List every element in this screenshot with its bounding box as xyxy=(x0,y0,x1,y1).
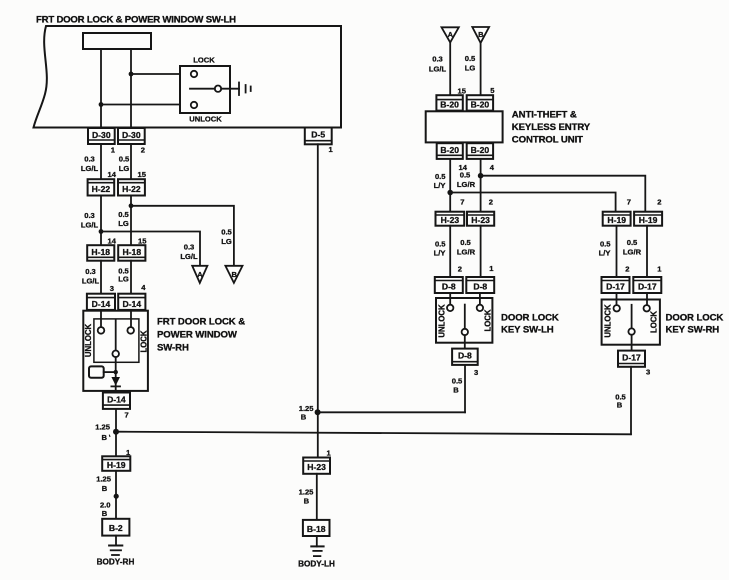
contact lock xyxy=(191,71,197,77)
ground terminal bars xyxy=(239,83,251,96)
switch DOOR LOCK KEY SW-RH box xyxy=(602,300,660,345)
svg-text:LG/L: LG/L xyxy=(81,221,99,230)
svg-text:D-8: D-8 xyxy=(458,351,472,361)
svg-text:KEYLESS ENTRY: KEYLESS ENTRY xyxy=(512,122,591,133)
wire to H-19 pin 7 xyxy=(450,193,615,212)
switch SW-LH key name label xyxy=(501,313,559,336)
svg-text:3: 3 xyxy=(474,368,478,377)
svg-text:B: B xyxy=(453,386,459,395)
connector H-18 pin 14 xyxy=(87,245,114,261)
svg-text:LG: LG xyxy=(465,64,476,73)
svg-text:0.5: 0.5 xyxy=(460,171,471,180)
node junction ground bus xyxy=(113,429,119,435)
svg-text:KEY SW-LH: KEY SW-LH xyxy=(501,325,554,336)
connector D-14 pin 4 xyxy=(118,294,145,310)
node junction LG/R xyxy=(478,173,484,179)
wire xyxy=(104,371,116,373)
connector B-20 pin 4 xyxy=(467,143,493,159)
wire xyxy=(130,310,132,327)
svg-text:LG/L: LG/L xyxy=(82,277,100,286)
node junction xyxy=(114,370,118,374)
motor bar inside SW-LH xyxy=(83,33,151,49)
connector D-30 pin 2 xyxy=(118,128,145,144)
wire to triangle A xyxy=(101,232,200,266)
label 0.5 L/Y xyxy=(599,240,612,258)
wire xyxy=(130,49,132,128)
svg-text:DOOR LOCK: DOOR LOCK xyxy=(666,313,724,324)
svg-text:UNLOCK: UNLOCK xyxy=(603,304,612,338)
svg-text:15: 15 xyxy=(138,237,147,246)
svg-text:D-17: D-17 xyxy=(638,281,657,291)
node junction to B xyxy=(129,203,134,208)
svg-text:D-5: D-5 xyxy=(311,130,325,140)
svg-text:D-8: D-8 xyxy=(442,281,456,291)
lock switch S1 box xyxy=(180,66,230,113)
wire xyxy=(100,49,102,128)
label 1.25 B xyxy=(299,404,315,422)
svg-text:UNLOCK: UNLOCK xyxy=(189,115,222,124)
wire xyxy=(115,471,117,519)
svg-text:LOCK: LOCK xyxy=(139,330,148,352)
svg-text:L/Y: L/Y xyxy=(434,181,446,190)
wire xyxy=(646,293,648,305)
svg-text:2: 2 xyxy=(657,198,661,207)
svg-text:0.3: 0.3 xyxy=(432,55,443,64)
svg-text:B: B xyxy=(231,270,237,279)
wire xyxy=(480,159,482,212)
svg-text:KEY SW-RH: KEY SW-RH xyxy=(666,325,720,336)
wire xyxy=(631,335,633,351)
wire xyxy=(449,293,451,305)
wire xyxy=(115,357,117,392)
svg-text:0.5: 0.5 xyxy=(435,240,446,249)
svg-text:L/Y: L/Y xyxy=(599,249,611,258)
wire xyxy=(316,536,318,546)
label 2.0 B xyxy=(100,501,111,519)
label 1.25 B xyxy=(96,475,112,494)
wire xyxy=(449,159,451,212)
wire xyxy=(130,144,132,179)
connector D-5 pin 1 xyxy=(305,128,332,145)
wire xyxy=(100,144,102,179)
connector D-8 pin 2 xyxy=(435,277,463,293)
connector D-8 pin 1 xyxy=(466,277,494,293)
label 0.5 L/Y xyxy=(434,240,447,258)
svg-text:LG/R: LG/R xyxy=(457,180,476,189)
svg-text:UNLOCK: UNLOCK xyxy=(437,304,446,338)
svg-text:BODY-LH: BODY-LH xyxy=(298,560,335,569)
wire common xyxy=(631,305,633,329)
connector H-18 pin 15 xyxy=(118,245,145,261)
connector H-22 pin 15 xyxy=(118,179,145,195)
contact common xyxy=(112,351,119,358)
svg-text:B-20: B-20 xyxy=(471,100,490,110)
wire xyxy=(100,261,102,294)
connector B-20 pin 5 xyxy=(467,95,493,110)
connector D-30 pin 1 xyxy=(88,128,115,144)
svg-text:D-8: D-8 xyxy=(473,281,487,291)
svg-text:0.3: 0.3 xyxy=(84,155,95,164)
contact unlock xyxy=(191,102,197,108)
svg-text:POWER WINDOW: POWER WINDOW xyxy=(157,330,238,341)
svg-text:CONTROL UNIT: CONTROL UNIT xyxy=(512,135,583,146)
node junction L/Y xyxy=(447,190,453,196)
svg-text:H-22: H-22 xyxy=(92,184,111,194)
connector H-19 pin 2 xyxy=(634,212,662,226)
wire xyxy=(616,293,618,305)
svg-text:B-20: B-20 xyxy=(440,145,459,155)
wire common xyxy=(464,305,466,329)
node junction xyxy=(114,494,119,499)
svg-text:0.5: 0.5 xyxy=(119,155,130,164)
svg-text:1.25: 1.25 xyxy=(299,488,315,497)
svg-text:H-18: H-18 xyxy=(91,247,110,257)
svg-text:7: 7 xyxy=(627,198,631,207)
label 0.3 LG/L xyxy=(81,211,99,230)
svg-text:LOCK: LOCK xyxy=(193,56,215,65)
svg-text:D-14: D-14 xyxy=(107,394,126,404)
svg-text:H-19: H-19 xyxy=(639,215,658,225)
svg-text:0.5: 0.5 xyxy=(460,238,471,247)
node junction left xyxy=(99,102,104,107)
switch DOOR LOCK KEY SW-LH box xyxy=(436,298,492,343)
svg-text:0.3: 0.3 xyxy=(184,243,195,252)
switch SW-RH box xyxy=(83,311,148,391)
label 0.5 LG xyxy=(465,54,476,73)
wire xyxy=(646,226,648,277)
svg-text:D-14: D-14 xyxy=(122,299,141,309)
svg-text:0.5: 0.5 xyxy=(221,228,232,237)
label 0.5 B xyxy=(452,377,463,395)
svg-text:1.25: 1.25 xyxy=(96,475,112,484)
svg-text:7: 7 xyxy=(460,198,464,207)
svg-text:0.5: 0.5 xyxy=(627,238,638,247)
svg-text:15: 15 xyxy=(138,170,147,179)
node junction right xyxy=(129,72,134,77)
contact common xyxy=(462,329,468,335)
svg-text:LG/L: LG/L xyxy=(81,164,99,173)
label 0.5 L/Y xyxy=(434,172,447,190)
svg-text:D-30: D-30 xyxy=(122,130,141,140)
label 0.5 LG near B xyxy=(221,228,232,247)
wire xyxy=(480,226,482,277)
label 0.5 LG xyxy=(119,155,130,174)
label 0.5 LG/R xyxy=(457,238,476,257)
svg-text:H-23: H-23 xyxy=(307,462,326,472)
wire xyxy=(464,365,466,412)
connector D-17 pin 2 xyxy=(602,277,630,293)
wire xyxy=(449,42,451,95)
wire common xyxy=(115,320,117,351)
svg-text:B-20: B-20 xyxy=(471,145,490,155)
switch SW-RH name label xyxy=(157,317,245,354)
svg-text:D-17: D-17 xyxy=(606,281,625,291)
wire xyxy=(190,88,215,90)
svg-text:H-23: H-23 xyxy=(471,215,490,225)
svg-text:H-18: H-18 xyxy=(122,247,141,257)
connector arrow B down xyxy=(225,266,242,283)
connector D-14 pin 3 xyxy=(87,294,115,310)
svg-text:7: 7 xyxy=(125,411,129,420)
label 0.3 LG/L xyxy=(82,267,100,286)
svg-text:ANTI-THEFT &: ANTI-THEFT & xyxy=(512,110,577,121)
svg-text:LG/R: LG/R xyxy=(457,248,476,257)
svg-text:14: 14 xyxy=(108,237,117,246)
connector H-19 pin 7 xyxy=(603,212,631,226)
wire xyxy=(464,335,466,348)
svg-text:0.5: 0.5 xyxy=(465,54,476,63)
svg-text:LG/L: LG/L xyxy=(180,252,198,261)
svg-text:H-22: H-22 xyxy=(122,184,141,194)
switch SW-RH key name label xyxy=(666,313,724,336)
connector D-8 pin 3 xyxy=(452,349,478,365)
svg-text:LG: LG xyxy=(119,164,130,173)
label 1.25 B xyxy=(299,488,315,506)
wire xyxy=(100,196,102,246)
svg-text:2: 2 xyxy=(458,265,462,274)
svg-text:3: 3 xyxy=(110,284,114,293)
diode D1 xyxy=(111,377,120,386)
svg-text:B-20: B-20 xyxy=(440,100,459,110)
connector D-17 pin 3 xyxy=(618,351,645,367)
connector arrow A top xyxy=(442,27,459,42)
svg-text:0.3: 0.3 xyxy=(85,267,96,276)
svg-text:LG/R: LG/R xyxy=(623,248,642,257)
label 0.5 LG xyxy=(118,210,129,228)
svg-text:B: B xyxy=(102,433,108,442)
svg-text:D-14: D-14 xyxy=(92,299,111,309)
wire xyxy=(479,293,481,305)
svg-text:D-17: D-17 xyxy=(622,353,641,363)
wire xyxy=(101,104,191,106)
wire ground bus xyxy=(116,432,631,435)
svg-text:0.5: 0.5 xyxy=(118,210,129,219)
node junction xyxy=(315,409,321,415)
svg-text:15: 15 xyxy=(458,87,467,96)
ground BODY-RH xyxy=(109,546,122,556)
label 0.3 LG/L xyxy=(429,55,447,74)
label 0.5 LG xyxy=(118,267,129,284)
svg-text:LG: LG xyxy=(118,219,129,228)
svg-text:LOCK: LOCK xyxy=(483,309,492,331)
wire xyxy=(130,261,132,294)
control block small square xyxy=(89,366,104,377)
control unit name label xyxy=(512,110,591,146)
svg-text:LG: LG xyxy=(118,275,129,284)
wire to triangle B xyxy=(131,206,234,266)
svg-text:B: B xyxy=(478,30,484,39)
svg-text:1.25: 1.25 xyxy=(95,423,111,432)
connector H-23 pin 1 xyxy=(303,458,330,474)
svg-text:B: B xyxy=(617,401,623,410)
contact common xyxy=(215,86,221,92)
connector H-22 pin 14 xyxy=(88,179,115,195)
svg-text:A: A xyxy=(448,30,454,39)
label 0.5 B xyxy=(615,393,626,410)
svg-text:L/Y: L/Y xyxy=(434,249,446,258)
svg-text:D-30: D-30 xyxy=(92,130,111,140)
svg-text:B: B xyxy=(102,484,108,493)
switch box FRT DOOR LOCK & POWER WINDOW SW-LH outline xyxy=(34,26,342,128)
svg-text:A: A xyxy=(197,270,203,279)
svg-text:DOOR LOCK: DOOR LOCK xyxy=(501,313,559,324)
wire xyxy=(449,226,451,277)
svg-text:B: B xyxy=(102,509,108,518)
wire xyxy=(318,411,465,413)
svg-text:H-19: H-19 xyxy=(107,460,126,470)
svg-text:B: B xyxy=(304,497,310,506)
svg-text:H-19: H-19 xyxy=(607,215,626,225)
contact lock xyxy=(477,305,483,311)
contact unlock xyxy=(98,327,105,334)
svg-text:FRT DOOR LOCK &: FRT DOOR LOCK & xyxy=(157,317,245,328)
label 0.3 LG/L near A xyxy=(180,243,198,262)
switch SW-RH inner box xyxy=(94,319,139,362)
svg-text:BODY-RH: BODY-RH xyxy=(97,558,135,567)
svg-text:UNLOCK: UNLOCK xyxy=(84,323,93,357)
connector D-17 pin 1 xyxy=(633,277,661,293)
wire D-5 down xyxy=(317,144,319,457)
wire xyxy=(616,226,618,277)
connector H-19 pin 1 xyxy=(102,456,130,471)
label 1.25 B xyxy=(95,423,111,442)
connector arrow B top xyxy=(472,27,489,43)
svg-text:14: 14 xyxy=(108,170,117,179)
connector B-18 ground eyelet xyxy=(303,520,330,536)
contact unlock xyxy=(614,305,620,311)
svg-text:B-18: B-18 xyxy=(307,524,326,534)
wire xyxy=(100,310,102,327)
connector B-20 pin 14 xyxy=(437,143,463,159)
contact lock xyxy=(127,327,134,334)
svg-text:0.5: 0.5 xyxy=(435,172,446,181)
svg-text:0.3: 0.3 xyxy=(84,211,95,220)
wire xyxy=(115,536,117,546)
ground BODY-LH xyxy=(311,546,323,556)
connector arrow A down xyxy=(192,266,207,283)
svg-text:0.5: 0.5 xyxy=(452,377,463,386)
svg-text:2: 2 xyxy=(625,265,629,274)
wire to H-19 pin 2 xyxy=(481,176,646,212)
connector H-23 pin 7 xyxy=(436,212,465,226)
control unit U1 box xyxy=(426,111,503,142)
node junction to A xyxy=(99,229,104,234)
wire xyxy=(316,474,318,520)
wire xyxy=(131,73,191,75)
label 0.3 LG/L xyxy=(81,155,99,174)
contact lock xyxy=(644,305,650,311)
connector D-14 pin 7 xyxy=(103,393,130,409)
contact unlock xyxy=(447,305,453,311)
svg-text:B: B xyxy=(301,413,307,422)
wire xyxy=(115,409,117,456)
connector B-2 ground eyelet xyxy=(102,519,129,536)
connector H-23 pin 2 xyxy=(467,212,494,226)
svg-text:SW-RH: SW-RH xyxy=(157,343,189,354)
svg-text:LOCK: LOCK xyxy=(649,311,658,333)
wire xyxy=(221,88,239,90)
label 0.5 LG/R xyxy=(623,238,642,257)
svg-text:2: 2 xyxy=(489,198,493,207)
wire xyxy=(480,43,482,95)
svg-text:2: 2 xyxy=(141,146,145,155)
svg-text:3: 3 xyxy=(646,368,650,377)
svg-text:B-2: B-2 xyxy=(109,523,123,533)
wire xyxy=(630,367,632,434)
label 0.5 LG/R xyxy=(457,171,476,190)
wire xyxy=(130,196,132,246)
svg-text:H-23: H-23 xyxy=(441,215,460,225)
svg-text:FRT DOOR LOCK & POWER WINDOW S: FRT DOOR LOCK & POWER WINDOW SW-LH xyxy=(36,15,236,26)
svg-text:LG: LG xyxy=(221,237,232,246)
contact common xyxy=(628,328,634,334)
connector B-20 pin 15 xyxy=(436,95,462,110)
svg-text:0.5: 0.5 xyxy=(600,240,611,249)
svg-text:LG/L: LG/L xyxy=(429,65,447,74)
